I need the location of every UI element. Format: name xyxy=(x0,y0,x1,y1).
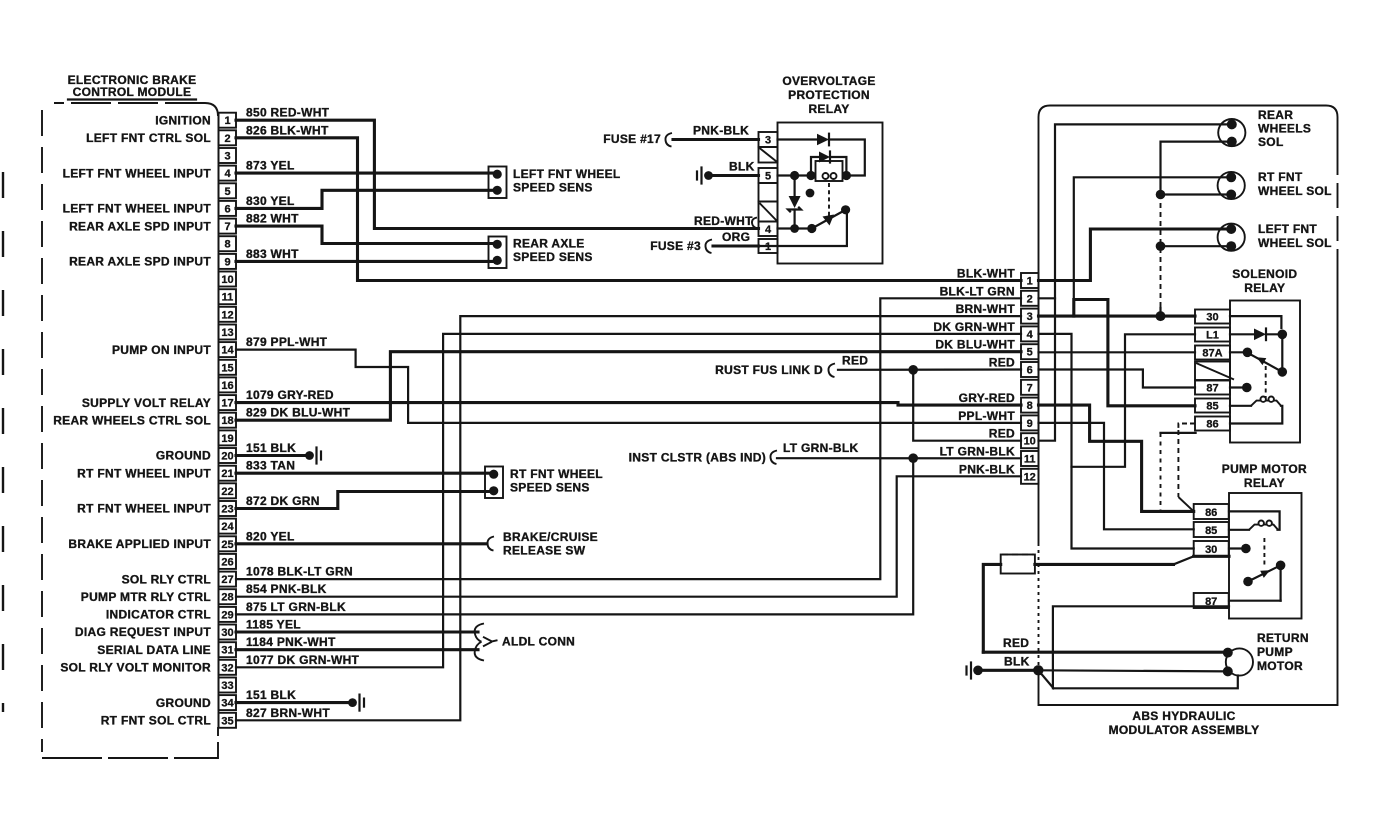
wire ORG fuse3 to relay pin 1 xyxy=(713,244,759,247)
svg-text:OVERVOLTAGE: OVERVOLTAGE xyxy=(782,74,875,88)
svg-text:SUPPLY VOLT RELAY: SUPPLY VOLT RELAY xyxy=(82,396,211,410)
svg-text:LEFT FNT WHEEL INPUT: LEFT FNT WHEEL INPUT xyxy=(63,166,212,180)
ECBM left side pin function labels xyxy=(53,113,211,727)
svg-text:6: 6 xyxy=(1027,365,1033,377)
svg-text:SOL: SOL xyxy=(1258,135,1284,149)
svg-text:12: 12 xyxy=(221,309,233,321)
svg-text:850 RED-WHT: 850 RED-WHT xyxy=(246,106,330,120)
rear wheels solenoid xyxy=(1218,108,1311,149)
svg-text:151 BLK: 151 BLK xyxy=(246,441,296,455)
right connector pin numbers xyxy=(1024,276,1036,484)
svg-text:BLK-LT GRN: BLK-LT GRN xyxy=(940,284,1015,298)
ECBM module box xyxy=(42,103,219,758)
wire pin28 854 PNK-BLK to right connector pin 12 xyxy=(236,476,1021,596)
wire pin35 827 BRN-WHT to right connector pin 3 xyxy=(236,316,1021,720)
svg-text:DK BLU-WHT: DK BLU-WHT xyxy=(935,338,1015,352)
brake/cruise release switch hook xyxy=(487,530,597,558)
svg-text:LEFT FNT WHEEL: LEFT FNT WHEEL xyxy=(513,167,621,181)
svg-text:BLK-WHT: BLK-WHT xyxy=(957,267,1015,281)
svg-text:14: 14 xyxy=(221,345,234,357)
pump relay internal: 87 row xyxy=(1229,600,1281,602)
left fnt wheel solenoid xyxy=(1218,222,1332,251)
svg-text:20: 20 xyxy=(221,451,233,463)
ALDL connector brace xyxy=(475,624,575,661)
overvoltage relay box xyxy=(778,123,883,264)
svg-text:PUMP MTR RLY CTRL: PUMP MTR RLY CTRL xyxy=(81,590,211,604)
svg-text:RED-WHT: RED-WHT xyxy=(694,214,753,228)
svg-text:3: 3 xyxy=(1027,311,1033,323)
svg-text:29: 29 xyxy=(221,609,233,621)
svg-text:RT FNT WHEEL: RT FNT WHEEL xyxy=(510,467,603,481)
svg-text:REAR AXLE SPD INPUT: REAR AXLE SPD INPUT xyxy=(69,219,211,233)
svg-text:1: 1 xyxy=(1027,276,1033,288)
svg-text:2: 2 xyxy=(1027,293,1033,305)
solenoid relay pin 30 xyxy=(1195,310,1230,324)
svg-text:3: 3 xyxy=(224,151,230,163)
svg-text:1079 GRY-RED: 1079 GRY-RED xyxy=(246,388,334,402)
svg-text:MODULATOR ASSEMBLY: MODULATOR ASSEMBLY xyxy=(1109,723,1260,737)
solenoid relay title xyxy=(1232,267,1297,295)
dashed riser segment near solenoid relay 85 to pump relay 86 xyxy=(1160,433,1162,511)
svg-text:31: 31 xyxy=(221,645,233,657)
svg-text:9: 9 xyxy=(224,256,230,268)
dashed mechanical link xyxy=(828,183,830,221)
svg-text:SPEED SENS: SPEED SENS xyxy=(510,481,590,495)
svg-text:IGNITION: IGNITION xyxy=(155,113,211,127)
switch arm with arrow xyxy=(812,205,850,228)
overvoltage relay coil xyxy=(816,161,843,181)
svg-text:13: 13 xyxy=(221,327,233,339)
svg-text:RT FNT SOL CTRL: RT FNT SOL CTRL xyxy=(101,714,211,728)
svg-text:GROUND: GROUND xyxy=(156,449,211,463)
B+ dashed riser to solenoids xyxy=(1161,142,1228,317)
svg-text:FUSE #3: FUSE #3 xyxy=(650,239,701,253)
ECBM wire circuit labels xyxy=(246,106,360,720)
ECBM module title xyxy=(68,73,197,100)
svg-text:REAR AXLE SPD INPUT: REAR AXLE SPD INPUT xyxy=(69,255,211,269)
svg-text:35: 35 xyxy=(221,715,233,727)
svg-text:DK GRN-WHT: DK GRN-WHT xyxy=(933,320,1015,334)
svg-text:4: 4 xyxy=(224,168,231,180)
svg-text:27: 27 xyxy=(221,574,233,586)
overvoltage relay pin 3 xyxy=(759,132,778,147)
svg-text:RED: RED xyxy=(842,354,868,368)
svg-text:RELAY: RELAY xyxy=(808,102,849,116)
svg-text:873 YEL: 873 YEL xyxy=(246,159,295,173)
svg-text:3: 3 xyxy=(765,135,771,147)
svg-text:PNK-BLK: PNK-BLK xyxy=(959,462,1015,476)
pump relay pin 85 xyxy=(1194,522,1229,537)
pump relay pin 86 xyxy=(1194,504,1229,519)
svg-text:SOLENOID: SOLENOID xyxy=(1232,267,1297,281)
wire pin1 row to switch contact xyxy=(759,210,847,246)
wire BLK ground to relay pin 5 xyxy=(708,174,759,177)
svg-text:875 LT GRN-BLK: 875 LT GRN-BLK xyxy=(246,600,346,614)
pump relay internal: dashed link xyxy=(1263,538,1265,568)
svg-text:MOTOR: MOTOR xyxy=(1257,659,1303,673)
solenoid relay internal: 87A contact and arm xyxy=(1230,348,1282,372)
diode D1 xyxy=(817,134,829,146)
svg-text:ORG: ORG xyxy=(722,230,750,244)
zener diode vertical xyxy=(788,176,801,229)
svg-text:ALDL CONN: ALDL CONN xyxy=(502,635,575,649)
ECBM connector pin boxes 1-35 xyxy=(219,113,237,728)
svg-text:RED: RED xyxy=(1003,636,1029,650)
B+ feed wire through inline connector to pump relay 30 xyxy=(983,556,1229,652)
svg-text:BRAKE/CRUISE: BRAKE/CRUISE xyxy=(503,530,598,544)
junction dot RED xyxy=(908,365,918,375)
svg-text:30: 30 xyxy=(1206,312,1218,324)
ground G2 xyxy=(348,695,364,711)
wire pin29 875 LT GRN-BLK to junction at inst clstr xyxy=(236,458,913,614)
svg-text:21: 21 xyxy=(221,468,233,480)
svg-text:87: 87 xyxy=(1206,383,1218,395)
wire D1 to right vertical xyxy=(829,140,865,176)
svg-text:2: 2 xyxy=(224,133,230,145)
wire to rt fnt sol bottom xyxy=(1161,193,1227,195)
wire right pin1 to left fnt sol top xyxy=(1039,229,1227,281)
solenoid relay pin 87 xyxy=(1195,381,1230,395)
pump relay pin 30 xyxy=(1194,541,1229,556)
pump motor relay title xyxy=(1222,462,1307,490)
page edge artifact dashes xyxy=(2,172,4,712)
wire BLK to pump motor bottom xyxy=(1038,670,1228,671)
wire BLK ground to junction xyxy=(978,669,1038,672)
svg-text:1: 1 xyxy=(224,115,230,127)
svg-text:30: 30 xyxy=(1205,544,1217,556)
overvoltage relay empty box xyxy=(759,183,778,202)
junction dot rt fnt sol bottom wire xyxy=(1156,190,1166,200)
overvoltage relay pin 5 xyxy=(759,168,778,183)
svg-text:BLK: BLK xyxy=(1004,655,1030,669)
overvoltage relay internal wire pin3 row xyxy=(778,138,818,140)
svg-text:FUSE #17: FUSE #17 xyxy=(603,132,661,146)
svg-text:7: 7 xyxy=(224,221,230,233)
solenoid relay internal: dashed link xyxy=(1265,366,1267,398)
solenoid relay 86 stub to pump relay 86 xyxy=(1178,424,1195,512)
svg-text:LT GRN-BLK: LT GRN-BLK xyxy=(783,441,858,455)
svg-text:RT FNT WHEEL INPUT: RT FNT WHEEL INPUT xyxy=(77,466,211,480)
svg-text:872 DK GRN: 872 DK GRN xyxy=(246,494,320,508)
wire pin1 850 RED-WHT to overvoltage relay pin 4 xyxy=(236,120,759,228)
svg-text:GRY-RED: GRY-RED xyxy=(959,391,1015,405)
return pump motor xyxy=(1223,631,1309,676)
ground G4 xyxy=(967,663,983,679)
svg-text:SERIAL DATA LINE: SERIAL DATA LINE xyxy=(97,643,211,657)
wire PNK-BLK fuse17 to relay pin 3 xyxy=(673,138,759,141)
svg-text:10: 10 xyxy=(221,274,233,286)
svg-text:15: 15 xyxy=(221,362,233,374)
svg-text:19: 19 xyxy=(221,433,233,445)
svg-text:33: 33 xyxy=(221,680,233,692)
hook at relay pin 4 xyxy=(752,218,757,229)
svg-text:INST CLSTR (ABS IND): INST CLSTR (ABS IND) xyxy=(629,451,766,465)
svg-text:1185 YEL: 1185 YEL xyxy=(246,618,301,632)
wire pin21 833 TAN to right front speed sensor xyxy=(236,472,489,475)
svg-text:PUMP ON INPUT: PUMP ON INPUT xyxy=(112,343,211,357)
wire pin9 883 WHT to rear axle speed sensor xyxy=(236,260,492,263)
svg-text:28: 28 xyxy=(221,592,233,604)
right connector pin boxes 1-12 xyxy=(1021,273,1039,484)
wire pin34 151 BLK to ground xyxy=(236,701,348,704)
wire pin31 1184 PNK-WHT to ALDL connector xyxy=(236,648,478,651)
svg-text:25: 25 xyxy=(221,539,233,551)
svg-text:32: 32 xyxy=(221,662,233,674)
svg-text:8: 8 xyxy=(1027,400,1033,412)
svg-text:ABS HYDRAULIC: ABS HYDRAULIC xyxy=(1132,709,1235,723)
inline connector rectangle xyxy=(1001,555,1035,574)
wire right pin9 staircase to pump relay 85 xyxy=(1039,423,1194,529)
svg-text:26: 26 xyxy=(221,556,233,568)
junction dot left fnt sol bottom wire xyxy=(1156,241,1166,251)
wire right pin6 staircase to solenoid relay 87 xyxy=(1039,370,1196,388)
svg-text:11: 11 xyxy=(1024,454,1036,466)
wire to left fnt sol bottom xyxy=(1161,245,1227,247)
pump motor relay box xyxy=(1229,493,1302,619)
solenoid relay internal: coil xyxy=(1230,397,1282,424)
wire pin25 820 YEL to brake/cruise release switch xyxy=(236,542,487,545)
svg-text:8: 8 xyxy=(224,239,230,251)
ABS hydraulic modulator assembly label xyxy=(1109,709,1260,737)
wire pin14 879 PPL-WHT to right connector pin 9 xyxy=(236,350,1021,423)
solenoid relay internal: 87 contact xyxy=(1230,383,1252,393)
svg-text:854 PNK-BLK: 854 PNK-BLK xyxy=(246,582,327,596)
rt fnt wheel solenoid xyxy=(1218,170,1332,200)
diode D2 parallel branch xyxy=(811,152,846,176)
svg-text:87A: 87A xyxy=(1202,348,1222,360)
wire right pin3 riser to rt fnt sol top xyxy=(1074,177,1227,316)
svg-text:829 DK BLU-WHT: 829 DK BLU-WHT xyxy=(246,406,351,420)
svg-text:1077 DK GRN-WHT: 1077 DK GRN-WHT xyxy=(246,653,360,667)
svg-text:REAR: REAR xyxy=(1258,108,1293,122)
svg-text:24: 24 xyxy=(221,521,234,533)
wire pin18 829 DK BLU-WHT to right connector pin 5 xyxy=(236,352,1021,421)
svg-text:WHEELS: WHEELS xyxy=(1258,122,1311,136)
svg-text:30: 30 xyxy=(221,627,233,639)
svg-text:4: 4 xyxy=(1027,329,1034,341)
svg-text:5: 5 xyxy=(765,171,771,183)
svg-text:PROTECTION: PROTECTION xyxy=(788,88,870,102)
pump relay internal: coil xyxy=(1229,511,1280,529)
wire right pin2 riser branch to solenoid relay 85 xyxy=(1074,300,1195,406)
ground G3 at overvoltage relay xyxy=(697,168,713,184)
svg-text:85: 85 xyxy=(1205,525,1217,537)
ground G1 xyxy=(305,448,321,464)
overvoltage relay pin 4 xyxy=(759,222,778,237)
wire INST CLSTR LT GRN-BLK to right connector pin 11 xyxy=(777,457,1021,459)
svg-text:86: 86 xyxy=(1205,507,1217,519)
svg-text:7: 7 xyxy=(1027,382,1033,394)
overvoltage relay keyway box xyxy=(759,147,778,163)
wire right pin2 up to rear wheels sol top xyxy=(1039,297,1056,299)
svg-text:16: 16 xyxy=(221,380,233,392)
svg-text:REAR WHEELS CTRL SOL: REAR WHEELS CTRL SOL xyxy=(53,413,211,427)
wire pin32 1077 DK GRN-WHT to right connector pin 4 xyxy=(236,334,1021,667)
wire pump relay 87 down to motor loop xyxy=(1053,606,1238,688)
svg-text:DIAG REQUEST INPUT: DIAG REQUEST INPUT xyxy=(75,625,211,639)
pump relay internal: 30 contact xyxy=(1229,544,1251,554)
wire RED to pump motor xyxy=(983,651,1228,654)
svg-text:10: 10 xyxy=(1024,436,1036,448)
svg-text:SPEED SENS: SPEED SENS xyxy=(513,181,593,195)
junction dot LT GRN-BLK xyxy=(908,453,918,463)
solenoid relay pin 85 xyxy=(1195,399,1230,413)
svg-text:833 TAN: 833 TAN xyxy=(246,459,295,473)
pump relay internal: switch arm xyxy=(1243,561,1285,601)
svg-text:5: 5 xyxy=(1027,347,1033,359)
svg-text:826 BLK-WHT: 826 BLK-WHT xyxy=(246,123,329,137)
floating junction dot xyxy=(806,189,815,198)
svg-text:23: 23 xyxy=(221,504,233,516)
wire pin27 1078 BLK-LT GRN to right connector pin 2 xyxy=(236,298,1021,579)
solenoid relay internal: L1 diode to contact xyxy=(1230,329,1287,377)
svg-text:9: 9 xyxy=(1027,418,1033,430)
wire pin17 1079 GRY-RED to right connector pin 8 xyxy=(236,403,1021,406)
svg-text:RETURN: RETURN xyxy=(1257,631,1309,645)
svg-text:PUMP MOTOR: PUMP MOTOR xyxy=(1222,462,1307,476)
junction dot BLK xyxy=(1033,665,1043,675)
svg-text:12: 12 xyxy=(1024,471,1036,483)
svg-text:820 YEL: 820 YEL xyxy=(246,529,295,543)
svg-text:BLK: BLK xyxy=(729,160,755,174)
svg-text:SPEED SENS: SPEED SENS xyxy=(513,250,593,264)
wire pin5 row xyxy=(778,174,815,176)
svg-text:SOL RLY CTRL: SOL RLY CTRL xyxy=(122,572,211,586)
wire below solenoid relay 86 box xyxy=(1161,432,1196,434)
svg-text:RED: RED xyxy=(989,356,1015,370)
right connector wire color labels xyxy=(933,267,1015,477)
svg-text:PPL-WHT: PPL-WHT xyxy=(958,409,1015,423)
wire RUST FUS LINK D RED to right connector pin 6 xyxy=(838,368,1021,370)
svg-text:PNK-BLK: PNK-BLK xyxy=(693,124,749,138)
solenoid relay pin 87A xyxy=(1195,346,1230,360)
svg-text:RELAY: RELAY xyxy=(1244,281,1285,295)
svg-text:830 YEL: 830 YEL xyxy=(246,194,295,208)
svg-text:882 WHT: 882 WHT xyxy=(246,212,299,226)
svg-text:5: 5 xyxy=(224,186,230,198)
svg-text:86: 86 xyxy=(1206,419,1218,431)
svg-text:WHEEL SOL: WHEEL SOL xyxy=(1258,184,1332,198)
svg-text:34: 34 xyxy=(221,698,234,710)
solenoid relay internal: 30 row link xyxy=(1230,316,1281,328)
solenoid relay pin 86 xyxy=(1195,417,1230,431)
svg-text:6: 6 xyxy=(224,203,230,215)
svg-text:SOL RLY VOLT MONITOR: SOL RLY VOLT MONITOR xyxy=(60,661,211,675)
svg-text:RT FNT: RT FNT xyxy=(1258,170,1303,184)
svg-text:85: 85 xyxy=(1206,401,1218,413)
connector left front wheel speed sensor xyxy=(489,167,621,199)
svg-text:1184 PNK-WHT: 1184 PNK-WHT xyxy=(246,635,336,649)
wire right pin5 row to solenoid relay 87A xyxy=(1039,351,1196,353)
wire right pin8 staircase to pump relay 86 xyxy=(1039,405,1194,511)
solenoid relay keyway box xyxy=(1195,362,1234,381)
wire pin30 1185 YEL to ALDL connector xyxy=(236,630,478,633)
svg-text:827 BRN-WHT: 827 BRN-WHT xyxy=(246,706,330,720)
svg-text:LEFT FNT: LEFT FNT xyxy=(1258,222,1317,236)
svg-text:RELAY: RELAY xyxy=(1244,476,1285,490)
ECBM pin numbers xyxy=(221,115,234,727)
wire pin7 882 WHT to rear axle speed sensor xyxy=(236,226,492,243)
wire right pin4 row riser xyxy=(1039,334,1194,549)
connector rear axle speed sensor xyxy=(489,237,593,269)
svg-text:17: 17 xyxy=(221,398,233,410)
overvoltage relay pin 1 xyxy=(759,239,778,253)
diagonal BLK branch to motor loop xyxy=(1038,670,1053,688)
wire pin2 826 BLK-WHT to right connector pin 1 xyxy=(236,138,1021,281)
svg-text:4: 4 xyxy=(765,224,772,236)
wire pin23 872 DK GRN to right front speed sensor xyxy=(236,492,489,509)
svg-text:PUMP: PUMP xyxy=(1257,645,1293,659)
svg-text:18: 18 xyxy=(221,415,233,427)
svg-text:151 BLK: 151 BLK xyxy=(246,688,296,702)
solenoid relay box xyxy=(1230,301,1300,443)
wire branch to solenoid relay L1 xyxy=(1072,334,1196,467)
svg-text:RED: RED xyxy=(989,427,1015,441)
svg-text:GROUND: GROUND xyxy=(156,696,211,710)
svg-text:RT FNT WHEEL INPUT: RT FNT WHEEL INPUT xyxy=(77,502,211,516)
svg-text:883 WHT: 883 WHT xyxy=(246,247,299,261)
svg-text:BRAKE APPLIED INPUT: BRAKE APPLIED INPUT xyxy=(68,537,211,551)
svg-text:LT GRN-BLK: LT GRN-BLK xyxy=(940,445,1015,459)
wire right pin3 row to solenoid relay 30 with junction dot xyxy=(1039,311,1196,321)
pump relay pin 87 xyxy=(1194,593,1229,608)
wire pin4 873 YEL to left front speed sensor xyxy=(236,172,492,175)
FUSE #3 label and hook xyxy=(650,239,712,253)
INST CLSTR label and hook xyxy=(629,441,859,465)
ABS hydraulic modulator assembly box xyxy=(1039,106,1338,706)
overvoltage protection relay title xyxy=(782,74,875,116)
wire pin4 row xyxy=(778,227,812,229)
overvoltage relay keyway box 2 xyxy=(759,202,778,222)
connector right front wheel speed sensor xyxy=(485,467,603,499)
riser x1055 rear sol top to pin 10 xyxy=(1039,124,1228,440)
svg-text:LEFT FNT WHEEL INPUT: LEFT FNT WHEEL INPUT xyxy=(63,202,212,216)
junction dots pin5 row xyxy=(790,171,799,180)
svg-text:REAR AXLE: REAR AXLE xyxy=(513,237,585,251)
wire pin6 830 YEL to left front speed sensor xyxy=(236,190,492,208)
svg-text:CONTROL MODULE: CONTROL MODULE xyxy=(73,85,192,99)
svg-text:11: 11 xyxy=(222,292,234,304)
svg-text:1078 BLK-LT GRN: 1078 BLK-LT GRN xyxy=(246,565,353,579)
solenoid relay pin L1 xyxy=(1195,328,1230,342)
svg-text:BRN-WHT: BRN-WHT xyxy=(956,302,1016,316)
svg-text:INDICATOR CTRL: INDICATOR CTRL xyxy=(106,608,211,622)
svg-text:879 PPL-WHT: 879 PPL-WHT xyxy=(246,335,328,349)
RUST FUS LINK D label and hook xyxy=(715,354,868,378)
svg-text:RUST FUS LINK D: RUST FUS LINK D xyxy=(715,363,823,377)
FUSE #17 label and hook xyxy=(603,132,672,147)
svg-text:WHEEL SOL: WHEEL SOL xyxy=(1258,236,1332,250)
svg-text:LEFT FNT CTRL SOL: LEFT FNT CTRL SOL xyxy=(86,131,211,145)
wire pin20 151 BLK to ground xyxy=(236,454,305,457)
svg-text:L1: L1 xyxy=(1206,330,1219,342)
wire RED branch to right connector pin 10 xyxy=(913,370,1021,441)
svg-text:RELEASE SW: RELEASE SW xyxy=(503,544,586,558)
svg-text:22: 22 xyxy=(221,486,233,498)
